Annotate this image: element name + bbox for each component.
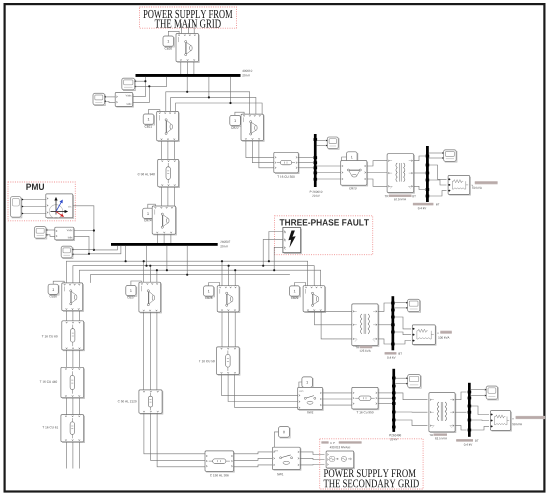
wire line300 b to busP260010	[298, 162, 313, 164]
wire line61 A stub	[65, 442, 67, 469]
wire bus1 tap to VI1 Vabc	[133, 77, 146, 97]
label source C P	[330, 442, 334, 444]
wire bus04 to load1 C	[429, 191, 447, 196]
wire bus04c to scope a	[471, 389, 485, 391]
wire busP262400 to TR2 A	[395, 393, 427, 400]
label CB24	[144, 219, 151, 221]
junction rail3 CB28	[234, 269, 236, 271]
label CB26	[50, 295, 57, 297]
pi-section line C 50 AL 2120	[139, 390, 163, 414]
wire CB27 phase 1	[149, 312, 151, 390]
wire rail phase a	[166, 92, 250, 114]
wire CB22 C out	[259, 141, 274, 168]
wire rail3 to CB27 C	[156, 270, 158, 282]
label bus P260010 voltage	[312, 195, 320, 197]
label TR1	[385, 195, 389, 197]
circuit breaker CB26	[62, 283, 84, 312]
bus 0.4kV BT secondary of TR1	[426, 146, 430, 202]
label SW1	[277, 473, 283, 475]
circuit breaker CB22	[241, 114, 264, 141]
wire CB21 com elbow	[148, 110, 160, 114]
constant block CB28 control	[204, 286, 215, 297]
junction PMU out	[93, 249, 95, 251]
label bus1 name 400010	[242, 70, 252, 72]
wire bus04 to load1 B	[429, 180, 447, 185]
junction r1 tap	[125, 260, 127, 262]
junction CB24-C bus2	[170, 243, 172, 245]
constant block CB26 control	[48, 284, 59, 295]
label load1 v	[472, 185, 473, 186]
pi-section line T 16 CU 440	[61, 367, 85, 398]
feeder rail 2	[73, 266, 314, 286]
hatched label source name left	[321, 441, 328, 444]
wire bus04c to load2 A	[471, 406, 489, 415]
label bus04c BT	[475, 440, 478, 442]
wire VI2 Iabc out	[74, 236, 121, 253]
label load2 v	[512, 418, 513, 419]
wire CB27 com elbow	[131, 281, 141, 285]
pi-section line C 150 AL 306	[205, 451, 234, 472]
scope at 0.4kV bus1	[442, 150, 457, 162]
hatched label load1	[475, 181, 498, 184]
junction rail2 CB27	[149, 265, 151, 267]
wire bus2 drop 2	[146, 246, 148, 266]
label CB22	[231, 127, 238, 129]
hatched label load3	[440, 331, 452, 334]
label CB20	[165, 47, 172, 49]
junction r4 tap	[186, 274, 188, 276]
junction scope6 tap	[88, 253, 90, 255]
wire bus1 tap phase c	[230, 77, 232, 103]
label TR3 rating 125 kVA	[360, 350, 371, 352]
wire TR3 c to bus125	[378, 339, 391, 344]
wire rail1 to CB27 A	[143, 261, 145, 282]
constant block CB24 control	[143, 208, 154, 219]
wire SW2 a to line950	[323, 392, 352, 394]
pi-section line T 16 CU 300	[274, 152, 299, 173]
wire bus1 tap phase b	[208, 77, 210, 98]
title text THE MAIN GRID	[155, 19, 221, 27]
label T 16 CU 300	[277, 176, 294, 178]
circuit breaker CB23	[341, 161, 368, 186]
wire scope5 to VI2 lower	[46, 235, 54, 237]
wire PMU output	[73, 206, 118, 250]
circuit breaker CB29	[303, 286, 326, 313]
wire CB21 A to line	[161, 141, 163, 160]
hatched label TR1 name	[389, 195, 412, 198]
hatched label bus04c BT	[456, 439, 473, 442]
junction VI1-scope tap	[148, 85, 150, 87]
wire line2120 B	[151, 413, 205, 460]
wire busP to scope b	[317, 145, 326, 147]
wire line950 b to busP262400	[378, 397, 392, 399]
wire fault A	[269, 232, 283, 262]
wire rail2 to CB27 B	[149, 266, 151, 282]
junction r3 tap	[166, 269, 168, 271]
wire CB26 C	[78, 311, 80, 321]
wire bus125 to load3 B	[394, 332, 411, 335]
wire bus2 drop 1	[125, 246, 127, 261]
wire bus2 drop 4	[186, 246, 188, 275]
wire CB22 A out	[246, 141, 274, 158]
wire rail3 to CB28 C	[234, 270, 236, 285]
constant block CB21 control	[143, 114, 154, 125]
label bus P262400	[389, 434, 401, 436]
constant block CB22 control	[230, 115, 241, 126]
title text PMU	[26, 184, 44, 190]
junction VI2 vabc	[93, 229, 95, 231]
wire bus2 drop 3	[166, 246, 168, 270]
wire SW2 c to line950	[323, 404, 352, 406]
wire line440 A	[65, 398, 67, 415]
label C 50 AL 948	[138, 173, 155, 175]
label CB28	[205, 297, 212, 299]
wire bus1 tap phase a	[186, 77, 188, 92]
wire CB22 com elbow	[235, 112, 244, 115]
wire SW2 b to line950	[323, 398, 352, 400]
transformer TR 125 kVA	[352, 304, 379, 346]
circuit breaker CB21	[157, 111, 180, 141]
label bus04c voltage	[464, 443, 472, 445]
wire TR1 b to bus04	[414, 172, 425, 174]
bus 0.4kV BT secondary of TR2	[468, 383, 472, 437]
wire CB20 A to bus1	[180, 62, 182, 74]
wire SW1 com elbow	[274, 432, 278, 447]
wire line948 C to CB24	[173, 187, 175, 206]
wire CB29 com elbow	[295, 283, 306, 286]
wire VI1 Iabc up	[133, 86, 149, 102]
wire scope1 tap b	[135, 77, 167, 86]
wire bus125 to scope a	[394, 302, 406, 304]
hatched label bus125 BT	[385, 352, 397, 355]
wire line306 c to SW1	[234, 465, 273, 467]
three-phase VI measurement 2	[55, 227, 75, 240]
transformer TR 62.5 kVA	[387, 154, 414, 194]
hatched label bus 0.4kV BT	[413, 203, 434, 206]
label 0.4 kV	[418, 207, 426, 209]
wire line60 A	[65, 350, 67, 367]
scope at bus125	[406, 299, 420, 312]
wire CB28 phase 2	[234, 312, 236, 347]
bus 0.4kV BT secondary of TR3	[391, 296, 395, 350]
wire scope6 upper tap	[72, 249, 94, 251]
wire scope5 to VI2 upper	[46, 229, 54, 231]
wire TR3 b to bus125	[378, 324, 391, 326]
wire line440 C	[78, 398, 80, 415]
pi-section line T 16 CU 50	[217, 347, 240, 375]
title text POWER SUPPLY FROM (secondary)	[324, 469, 416, 477]
junction rail2 CB28	[228, 265, 230, 267]
wire line2120 A	[144, 413, 205, 454]
junction rail c tap	[229, 102, 231, 104]
label T 16 CU 50	[199, 360, 215, 362]
constant block CB27 control	[126, 285, 137, 296]
wire inport to PMU c	[23, 213, 45, 215]
junction CB20-C bus1	[193, 74, 195, 76]
PMU phasor block	[46, 194, 74, 219]
wire line948 B to CB24	[167, 187, 169, 206]
label C 50 AL 2120	[118, 400, 137, 402]
junction rail a tap	[186, 91, 188, 93]
feeder rail 3	[79, 270, 320, 286]
three-phase VI measurement 1	[115, 93, 133, 108]
wire TR2 c to bus04c	[455, 426, 466, 430]
constant block CB29 control	[290, 286, 301, 297]
wire CB23 to TR1 B	[367, 172, 387, 174]
three-phase load 100 kVA	[412, 325, 436, 345]
wire CB29 C to TR3	[321, 312, 352, 339]
wire line950 c to busP262400	[378, 403, 392, 405]
wire CB29 A to TR3	[308, 310, 352, 312]
bus 400010 20kV	[136, 74, 241, 77]
wire bus04 to scope b	[429, 157, 442, 159]
wire CB23 com elbow	[342, 157, 347, 161]
pi-section line T 16 Cu 950	[352, 387, 379, 409]
label T 16 CU 60	[42, 335, 58, 337]
pi-section line T 16 CU 60	[62, 321, 85, 351]
three-phase fault block	[283, 228, 302, 254]
wire line300 a to busP260010	[298, 157, 313, 159]
wire scope2 to VI1 upper	[105, 96, 115, 98]
wire line61 C stub	[78, 442, 80, 469]
wire line50 B to SW2	[228, 375, 297, 402]
label bus2 voltage	[220, 245, 228, 247]
scope block 2	[93, 93, 106, 105]
wire CB21 C to line	[173, 141, 175, 160]
annotation box PMU	[8, 182, 75, 221]
three-phase load 50 kVA	[448, 176, 470, 196]
three-phase load 50 kVA secondary	[490, 411, 511, 431]
bus P 260010 20kV	[314, 134, 318, 187]
wire source phase c to CB20	[193, 23, 195, 33]
wire bus125 to load3 C	[394, 341, 411, 345]
label CB29	[291, 297, 298, 299]
wire bus04 to scope a	[429, 152, 442, 154]
wire CB28 phase 1	[228, 312, 230, 347]
wire busP262400 to TR2 C	[395, 420, 427, 426]
wire line2120 C	[157, 413, 205, 467]
hatched label TR2 name	[434, 433, 448, 436]
wire CB24 com elbow	[148, 204, 156, 208]
feeder rail 1	[66, 261, 307, 286]
junction CB24-A bus2	[156, 243, 158, 245]
label TR1 BT	[413, 195, 416, 197]
label T 16 Cu 950	[357, 411, 374, 413]
wire line948 A to CB24	[161, 187, 163, 206]
wire busP262400 to scope a	[395, 377, 406, 379]
wire CB21 B to line	[167, 141, 169, 160]
bus 260507 20kV	[111, 243, 218, 246]
title text POWER SUPPLY FROM (main)	[143, 10, 232, 18]
annotation box POWER SUPPLY FROM THE SECONDARY GRID	[320, 439, 423, 489]
hatched label TR3 name	[360, 346, 373, 349]
label TR2	[429, 434, 433, 436]
scope at bus P262400	[406, 375, 421, 389]
label T 16 CU 61	[42, 426, 58, 428]
junction rail1 CB27	[143, 260, 145, 262]
wire VI2 Vabc out	[74, 230, 94, 232]
circuit breaker CB20	[176, 34, 199, 63]
wire line61 B stub	[72, 442, 74, 469]
title text THREE-PHASE FAULT	[280, 219, 369, 225]
junction rail3 CB27	[156, 269, 158, 271]
scope at bus P260010	[326, 137, 339, 149]
wire SW1 b to source	[300, 458, 324, 459]
wire TR1 c to bus04	[414, 186, 425, 189]
circuit breaker CB28	[217, 286, 240, 313]
wire bus04c to scope b	[471, 395, 485, 397]
wire busP to CB23 b	[317, 172, 341, 174]
junction r2 tap	[145, 265, 147, 267]
annotation box POWER SUPPLY FROM THE MAIN GRID	[140, 7, 237, 28]
wire CB23 to TR1 C	[367, 179, 387, 186]
constant block CB23 control	[347, 152, 358, 163]
wire bus04c to load2 B	[471, 419, 489, 422]
wire fault C	[274, 247, 283, 270]
wire line50 C to SW2	[235, 375, 298, 408]
wire busP to scope a	[317, 140, 326, 142]
wire TR1 a to bus04	[414, 156, 425, 161]
label CB27	[127, 296, 134, 298]
wire inport to PMU b	[23, 206, 45, 208]
wire CB27 phase 2	[156, 312, 158, 390]
wire CB26 A	[65, 311, 67, 321]
wire CB27 phase 0	[143, 312, 145, 390]
circuit breaker CB27	[139, 282, 162, 313]
wire CB20 C to bus1	[193, 62, 195, 74]
label load3 rating 100 kVA	[438, 336, 449, 338]
wire line300 c to busP260010	[298, 167, 313, 169]
wire line440 B	[72, 398, 74, 415]
pi-section line T 16 CU 61	[61, 415, 85, 443]
input port block feeding PMU	[11, 197, 24, 218]
switch block SW1	[272, 447, 301, 470]
wire SW1 c to source	[300, 464, 324, 466]
wire CB20 com elbow	[168, 31, 179, 36]
label TR1 rating 62.5 kVA	[394, 198, 406, 200]
label bus2 name 260507	[220, 241, 230, 243]
wire bus125 to load3 A	[394, 317, 411, 329]
junction fault C rail3	[273, 269, 275, 271]
wire SW2 com elbow	[299, 382, 302, 387]
label CB21	[145, 126, 152, 128]
wire SW1 a to source	[300, 452, 324, 455]
wire busP to CB23 a	[317, 165, 341, 167]
label TR3	[355, 346, 359, 348]
junction CB24-B bus2	[163, 243, 165, 245]
wire CB28 com elbow	[209, 283, 220, 286]
junction rail b tap	[208, 96, 210, 98]
label BT	[436, 203, 439, 205]
wire bus04c to load2 C	[471, 426, 489, 430]
wire bus125 to scope b	[394, 307, 406, 309]
wire CB23 to TR1 A	[367, 161, 387, 166]
label bus1 voltage 20 kV	[242, 74, 250, 76]
feeder rail 4	[90, 275, 290, 283]
label bus P262400 voltage	[390, 438, 398, 440]
wire CB26 com elbow	[53, 281, 64, 284]
wire line60 C	[78, 350, 80, 367]
scope at bus04c	[485, 386, 499, 400]
pi-section line C 50 AL 948	[158, 159, 180, 187]
junction CB20-B bus1	[186, 74, 188, 76]
junction scope1 tap	[144, 80, 146, 82]
wire TR3 a to bus125	[378, 303, 391, 311]
constant block SW2 control	[302, 377, 313, 388]
label source rating 433.013 MVAac	[330, 446, 350, 448]
wire TR2 b to bus04c	[455, 411, 466, 413]
label load3 v	[437, 333, 438, 334]
wire rail2 to CB28 B	[228, 266, 230, 286]
wire line306 a to SW1	[234, 452, 273, 454]
label bus P260010	[310, 191, 322, 193]
wire busP to CB23 c	[317, 178, 341, 180]
wire CB24 B to bus2	[163, 234, 165, 243]
wire CB29 B to TR3	[315, 312, 352, 325]
label T 16 CU 440	[40, 381, 57, 383]
wire scope2 to VI1 lower	[105, 102, 115, 103]
junction CB20-A bus1	[180, 74, 182, 76]
transformer TR2 62.5 kVA	[429, 393, 456, 433]
label bus125 BT	[399, 353, 402, 355]
wire CB28 phase 0	[221, 312, 223, 347]
three-phase source block secondary grid	[326, 451, 354, 469]
scope block 5	[34, 227, 47, 239]
label TR2 rating 62.5 kVA	[435, 437, 447, 439]
wire rail phase c	[176, 103, 263, 114]
junction fault B rail2	[262, 265, 264, 267]
wire line60 B	[72, 350, 74, 367]
label bus125 voltage	[387, 356, 395, 358]
scope block 6	[61, 246, 73, 258]
wire TR2 a to bus04c	[455, 392, 466, 400]
wire fault B	[263, 239, 283, 265]
wire line306 b to SW1	[234, 458, 273, 460]
label load1 rating 50 kVA	[472, 187, 482, 189]
switch block SW2	[298, 387, 324, 410]
label CB23	[349, 187, 356, 189]
wire inport to PMU a	[23, 199, 45, 201]
wire busP262400 to TR2 B	[395, 411, 427, 413]
hatched label source name right	[339, 441, 362, 444]
wire source phase a to CB20	[181, 23, 183, 33]
bus P262400 20kV	[392, 369, 396, 432]
hatched label load2	[516, 416, 546, 419]
label load2 rating 50 kVA	[512, 423, 522, 425]
junction fault A rail1	[268, 260, 270, 262]
wire CB24 A to bus2	[156, 234, 158, 243]
label SW2	[307, 411, 313, 413]
wire CB26 B	[72, 311, 74, 321]
wire CB20 B to bus1	[186, 62, 188, 74]
title text THE SECONDARY GRID	[324, 480, 419, 488]
circuit breaker CB24	[152, 206, 176, 235]
annotation box THREE-PHASE FAULT	[275, 216, 373, 255]
wire source phase b to CB20	[187, 23, 189, 33]
junction rail1 CB28	[221, 260, 223, 262]
wire rail phase b	[171, 97, 256, 114]
wire scope1 tap a	[135, 80, 146, 82]
wire rail1 to CB28 A	[221, 261, 223, 285]
label C 150 AL 306	[210, 474, 229, 476]
wire busP262400 to scope b	[395, 383, 406, 385]
wire line50 A to SW2	[222, 375, 298, 396]
constant block SW1 control	[279, 427, 291, 438]
wire bus04 to load1 A	[429, 165, 447, 179]
scope block near bus1	[122, 78, 136, 90]
wire scope6 lower tap	[72, 253, 89, 255]
wire CB22 B out	[252, 141, 273, 163]
